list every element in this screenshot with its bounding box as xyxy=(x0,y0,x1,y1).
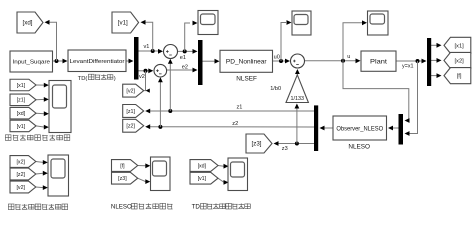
svg-text:Input_Suqare: Input_Suqare xyxy=(12,60,50,66)
svg-text:[x2]: [x2] xyxy=(454,59,464,65)
svg-text:TD(: TD( xyxy=(78,76,88,82)
svg-text:e2: e2 xyxy=(182,65,188,71)
svg-text:[x1]: [x1] xyxy=(17,83,26,89)
svg-text:[z3]: [z3] xyxy=(252,141,262,148)
svg-text:[z2]: [z2] xyxy=(16,172,25,178)
svg-text:): ) xyxy=(114,76,116,82)
svg-text:[xd]: [xd] xyxy=(17,111,26,117)
svg-text:z1: z1 xyxy=(237,105,243,111)
svg-text:LevantDifferentiator: LevantDifferentiator xyxy=(70,59,125,65)
svg-text:z3: z3 xyxy=(282,146,288,152)
svg-text:v1: v1 xyxy=(144,44,150,50)
svg-text:[v1]: [v1] xyxy=(118,20,128,27)
svg-text:[f]: [f] xyxy=(457,74,462,80)
svg-text:NLESO: NLESO xyxy=(111,204,132,211)
svg-text:[z3]: [z3] xyxy=(118,176,127,182)
svg-text:[v2]: [v2] xyxy=(126,89,135,95)
svg-text:v2: v2 xyxy=(139,74,145,80)
svg-text:z2: z2 xyxy=(232,121,238,127)
svg-text:NLSEF: NLSEF xyxy=(236,75,257,82)
svg-text:u: u xyxy=(347,54,350,60)
svg-text:[v2]: [v2] xyxy=(16,185,25,191)
svg-text:1/b0: 1/b0 xyxy=(270,86,281,92)
svg-text:1/133: 1/133 xyxy=(291,96,305,102)
svg-text:[f]: [f] xyxy=(120,163,125,169)
svg-text:[z2]: [z2] xyxy=(126,124,135,130)
svg-text:Plant: Plant xyxy=(370,58,387,65)
svg-text:[z1]: [z1] xyxy=(17,98,26,104)
svg-text:[v1]: [v1] xyxy=(198,176,207,182)
svg-text:[xd]: [xd] xyxy=(23,20,33,27)
svg-text:u0: u0 xyxy=(274,54,280,60)
svg-text:[v1]: [v1] xyxy=(17,124,26,130)
svg-text:e1: e1 xyxy=(180,55,186,61)
svg-text:Observer_NLESO: Observer_NLESO xyxy=(336,125,383,132)
svg-text:y=x1: y=x1 xyxy=(402,64,414,70)
svg-text:TD: TD xyxy=(192,204,201,211)
svg-text:PD_Nonlinear: PD_Nonlinear xyxy=(226,59,268,66)
svg-text:NLESO: NLESO xyxy=(348,144,370,151)
svg-text:[z1]: [z1] xyxy=(126,109,135,115)
svg-text:[x1]: [x1] xyxy=(454,43,464,49)
svg-text:[x2]: [x2] xyxy=(16,159,25,165)
svg-text:[xd]: [xd] xyxy=(198,163,207,169)
